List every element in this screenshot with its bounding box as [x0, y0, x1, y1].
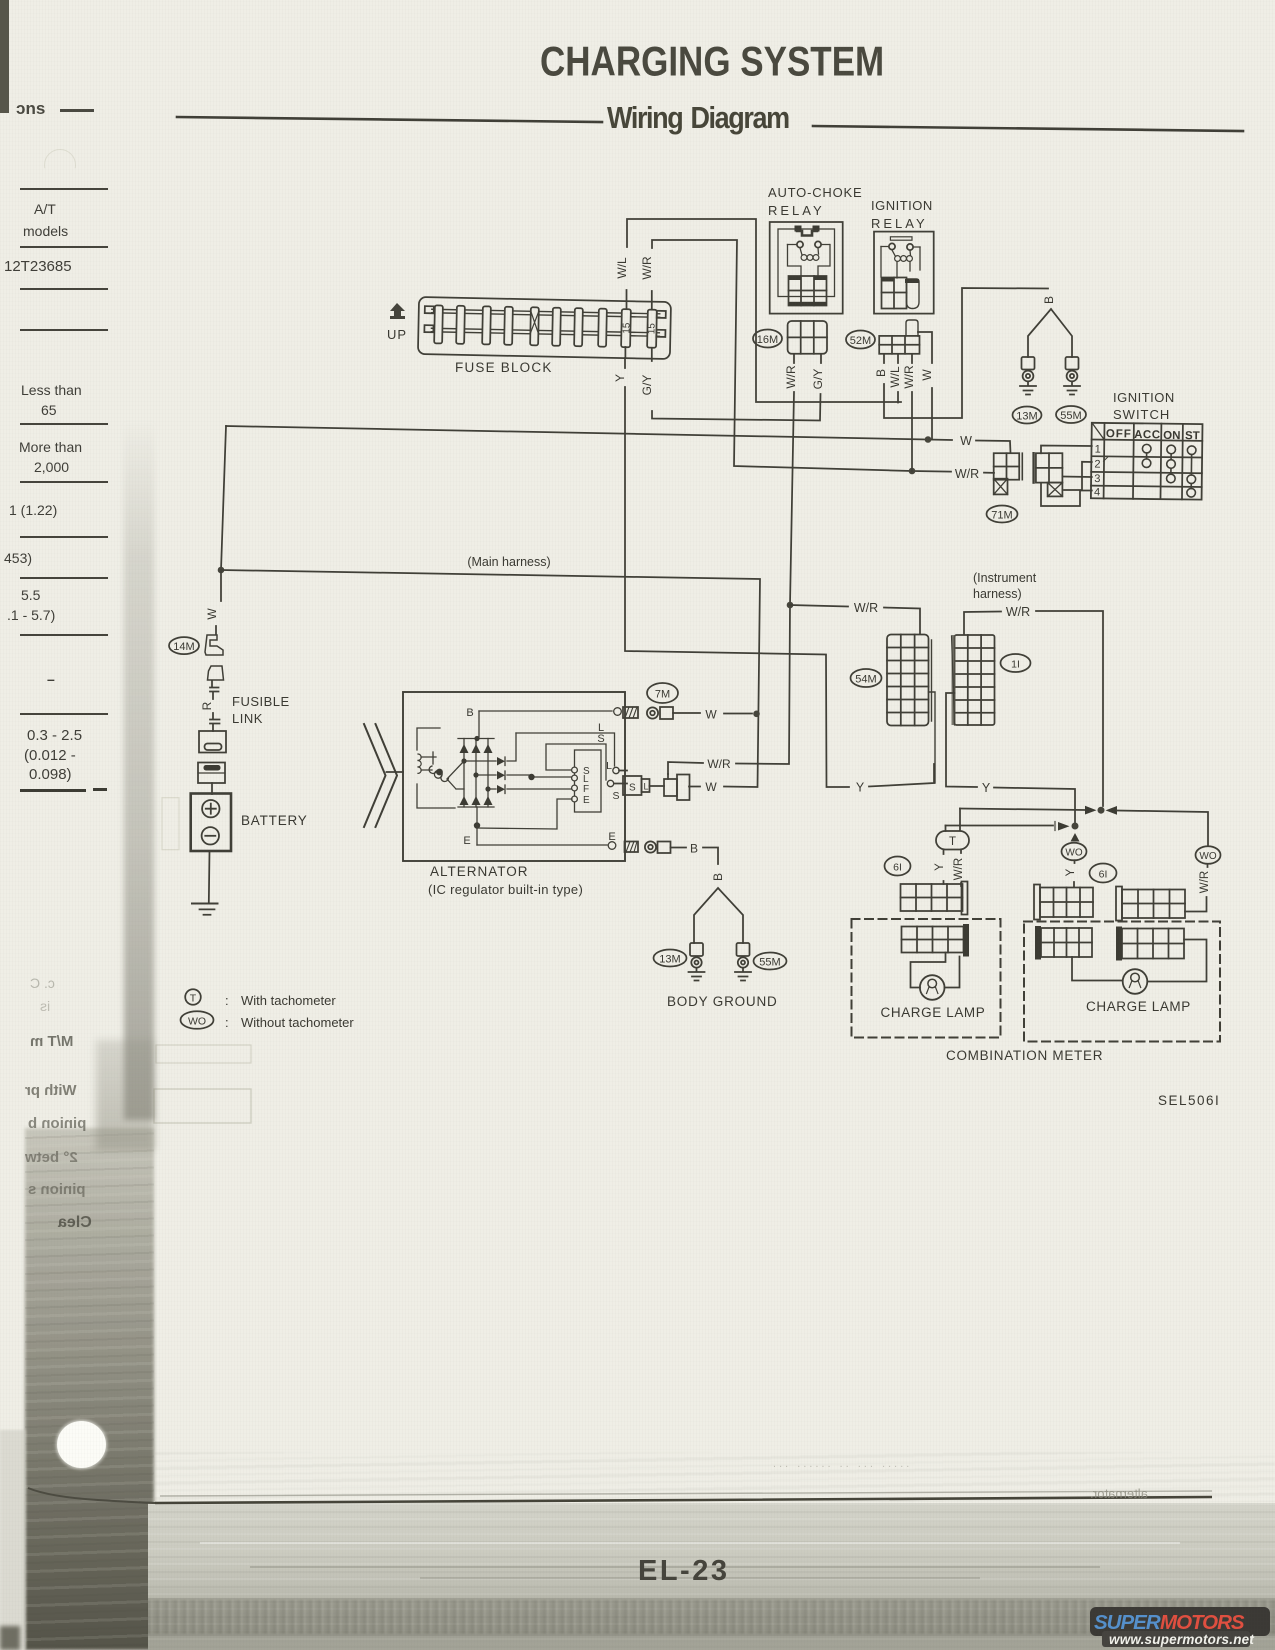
connector pair (female) — [208, 666, 224, 680]
faint mottle above page curl — [155, 1452, 1275, 1502]
inner grids — [1041, 928, 1092, 957]
52M W pin wire to W line — [918, 332, 932, 440]
pulley — [364, 724, 397, 827]
junction 7M W to main harness — [753, 711, 760, 718]
wire switch row 2 to connector — [1064, 462, 1092, 490]
body ground 55M — [735, 943, 787, 981]
mirrored bleed-through text — [30, 1033, 73, 1050]
connector (S/L harness side) — [664, 774, 690, 800]
connector 14M ellipse — [169, 637, 199, 654]
ghost boxes (scan artifacts) — [156, 1045, 251, 1063]
meter connector grids (WO lamps, upper) — [1034, 885, 1093, 920]
AUTO-CHOKE RELAY — [768, 185, 862, 314]
wire Y from 1I to junction — [946, 693, 1075, 822]
wide dark band bottom-left — [25, 1128, 154, 1650]
ground terminal 13M (top right) — [1013, 357, 1042, 424]
crossed-out fuse — [530, 311, 538, 333]
connector T (with tachometer) — [934, 831, 969, 886]
52M W/R pin wire — [911, 392, 913, 471]
connector 1I — [952, 635, 1031, 725]
wire G/Y from fuse to 16M — [640, 348, 821, 421]
alternator box — [403, 692, 625, 861]
connector WO (right, without tachometer) — [1185, 846, 1221, 911]
relay coil — [801, 255, 807, 261]
connector (ignition switch side) — [1034, 453, 1063, 496]
junction W/R to 54M — [787, 602, 794, 609]
16M W/R pin wire down to W/R junction — [668, 392, 794, 774]
long W wire (fuse area to ignition switch) — [226, 426, 1011, 453]
52M W/L pin wire — [897, 392, 899, 403]
ground terminal 55M (top right) — [1056, 357, 1086, 423]
junction W/R — [909, 468, 916, 475]
connector 54M — [851, 635, 936, 784]
wire switch row 4 loop to connector — [1041, 483, 1092, 506]
relay contact bar (dark) — [795, 226, 820, 232]
legend: T = with tachometer — [185, 989, 336, 1008]
wire to battery — [211, 783, 213, 794]
7M ellipse label — [647, 683, 678, 703]
fuses — [434, 305, 657, 347]
junction W — [925, 436, 932, 443]
wire switch row 1 to connector — [1041, 446, 1092, 454]
svg-text:www.supermotors.net: www.supermotors.net — [1109, 1632, 1254, 1647]
header rule left of Wiring Diagram — [177, 117, 602, 122]
ignition switch table — [1091, 423, 1203, 500]
ignition relay connector — [882, 278, 907, 309]
52M ellipse label — [846, 331, 875, 349]
S loop wire — [546, 744, 606, 780]
6I ellipse (right) — [1090, 864, 1117, 883]
phase taps with trio diodes — [464, 733, 572, 789]
relay contacts — [797, 241, 803, 247]
fuse block — [418, 297, 671, 359]
faint mirrored alternator text — [1090, 1486, 1148, 1501]
charge lamp box (with tachometer) — [852, 919, 1001, 1038]
alternator B terminal hardware — [623, 707, 752, 722]
light grey left margin at bottom — [0, 1430, 26, 1650]
wire W/R from fuse down to ignition switch side — [640, 240, 994, 481]
svg-text:SUPER: SUPER — [1094, 1611, 1161, 1634]
S|L connector at alternator — [614, 771, 664, 796]
narrow spine smudge — [124, 420, 154, 1120]
battery feed drop from W wire — [221, 426, 226, 570]
16M ellipse label — [753, 330, 782, 348]
bottom grey strip below page curl — [148, 1503, 1275, 1650]
side pin stubs — [425, 306, 434, 313]
connector 16M — [784, 321, 827, 389]
diode bridge — [458, 739, 494, 808]
wire Y from fuse down to 54M — [613, 347, 934, 795]
wire W to 14M — [216, 572, 221, 634]
connector 52M — [874, 320, 934, 389]
supermotors watermark — [1080, 1598, 1275, 1650]
charge lamp bulb — [1123, 969, 1148, 994]
connector pair (male) — [205, 635, 223, 655]
inner connector grid — [902, 927, 964, 953]
charge lamp box (without tachometer) — [1024, 922, 1220, 1042]
body ground 13M — [654, 943, 705, 981]
alternator internals — [417, 707, 621, 849]
switch position contacts — [1142, 444, 1196, 497]
lamp wiring — [911, 953, 946, 988]
52M B pin wire to body grounds — [884, 288, 1048, 418]
ground (battery) — [192, 903, 218, 905]
wire W/R from 1I — [964, 611, 1103, 806]
meter connector grid (T lamp, upper) — [901, 882, 968, 915]
wire B split to 13M / 55M grounds — [1028, 309, 1072, 357]
6I ellipse (left) — [885, 857, 911, 876]
left dark corner below — [0, 1626, 20, 1650]
main harness wire to alternator S — [221, 555, 760, 794]
IGNITION RELAY — [871, 198, 934, 314]
fuse bus lines — [431, 309, 659, 336]
lamp wiring — [1072, 957, 1123, 981]
ghost box (scan artifact) — [162, 798, 179, 850]
middle phase to regulator — [531, 776, 571, 778]
charge lamp bulb — [920, 975, 945, 1000]
EL-23 page number — [638, 1555, 729, 1588]
fusible link holder — [198, 763, 225, 784]
legend: WO = without tachometer — [181, 1011, 355, 1030]
L wire — [516, 733, 615, 766]
connector WO (middle, without tachometer) — [1062, 843, 1087, 887]
fusible link lead R — [210, 681, 219, 699]
scan streak lines — [250, 1566, 1100, 1568]
relay connector block — [789, 276, 827, 306]
svg-text:MOTORS: MOTORS — [1160, 1611, 1245, 1634]
junction cluster (tach / no-tach splices) — [946, 806, 1209, 846]
punch hole — [57, 1421, 106, 1468]
alternator E terminal hardware — [625, 841, 719, 864]
stator / rotor area — [417, 728, 455, 808]
junction main harness — [218, 567, 225, 574]
fusible link — [199, 731, 226, 753]
battery — [191, 794, 231, 852]
wire W/R to 54M — [790, 605, 920, 634]
wire switch row 3 to connector — [1062, 476, 1091, 479]
regulator box S L F E — [575, 750, 602, 812]
battery ground wire — [208, 851, 211, 903]
UP arrow — [387, 303, 407, 342]
dark page edge top-left — [0, 0, 9, 113]
connector 71M (W / W-R from main harness) — [987, 453, 1023, 522]
header rule right of Wiring Diagram — [813, 126, 1243, 131]
E branch — [477, 799, 572, 829]
wire W/L from fuse to auto-choke relay area — [615, 219, 901, 402]
